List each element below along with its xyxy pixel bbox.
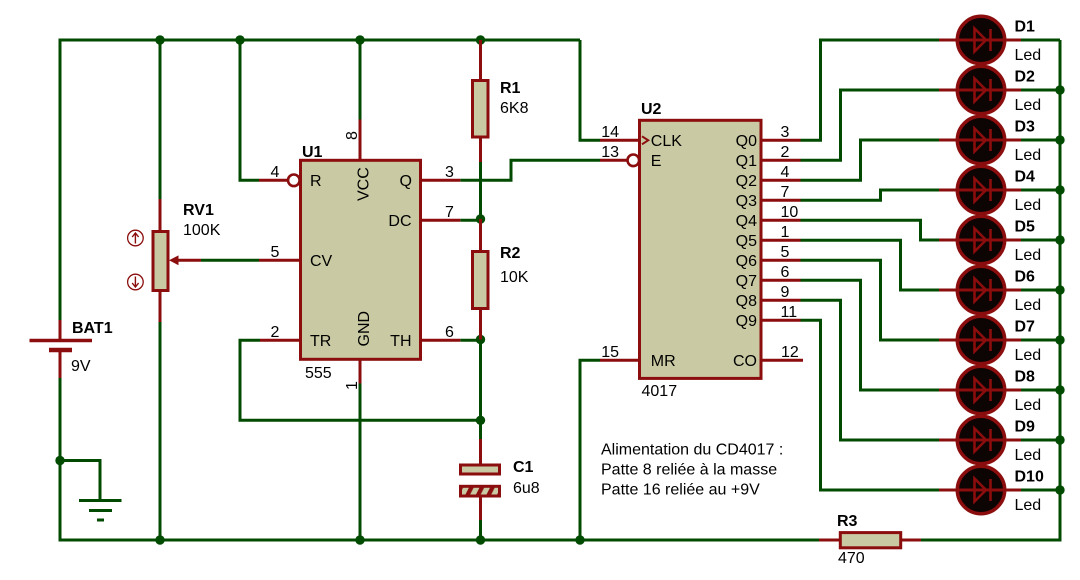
svg-text:3: 3 (445, 164, 454, 181)
wire Q4 to D5 (801, 220, 941, 240)
svg-text:3: 3 (781, 124, 790, 141)
pin number 7 (781, 184, 790, 201)
wire RV1 bottom (159, 322, 162, 540)
junction LED rail / D8 (1055, 385, 1064, 394)
junction bottom rail / C1 (476, 535, 485, 544)
junction R2-TH node (476, 335, 485, 344)
wire C1 bottom to rail (479, 520, 482, 540)
svg-text:R: R (310, 173, 322, 190)
junction top rail / reset (235, 35, 244, 44)
pin name CLK (651, 133, 682, 150)
svg-text:Led: Led (1015, 247, 1042, 264)
junction LED rail / D2 (1055, 85, 1064, 94)
wire +9V top rail (59, 39, 581, 42)
wire Q3 to D4 (801, 190, 941, 200)
svg-text:555: 555 (305, 365, 332, 382)
pin Q2 lead (761, 179, 801, 182)
pin number 15 (601, 344, 619, 361)
svg-text:8: 8 (344, 131, 361, 140)
LED D9 (939, 416, 1021, 463)
pin name E (651, 153, 662, 170)
svg-text:Q4: Q4 (736, 213, 757, 230)
label U2 (641, 101, 662, 118)
pin Q6 lead (761, 259, 801, 262)
svg-text:4: 4 (271, 164, 280, 181)
wire D1 cathode to rail (1021, 39, 1060, 42)
pin 4 R bubble (288, 175, 300, 187)
pin Q4 lead (761, 219, 801, 222)
pin number 6 (781, 264, 790, 281)
value Led D7 (1015, 347, 1042, 364)
IC U2 4017 body (640, 120, 762, 378)
label D4 (1015, 169, 1036, 186)
pin number 3 (445, 164, 454, 181)
wire Q2 to D3 (801, 140, 941, 180)
svg-text:TH: TH (390, 333, 411, 350)
label D1 (1015, 19, 1036, 36)
wire reset branch to pin4 (240, 40, 259, 180)
svg-text:D5: D5 (1015, 219, 1036, 236)
svg-text:U2: U2 (641, 101, 662, 118)
label R1 (500, 80, 521, 97)
resistor R3 (819, 533, 921, 548)
pin name Q5 (736, 233, 757, 250)
svg-text:6: 6 (445, 324, 454, 341)
potentiometer RV1 (153, 199, 201, 322)
note line 3 (601, 481, 760, 498)
svg-text:Led: Led (1015, 397, 1042, 414)
svg-text:Led: Led (1015, 147, 1042, 164)
value Led D4 (1015, 197, 1042, 214)
junction battery/ground (55, 456, 64, 465)
svg-text:Q8: Q8 (736, 293, 757, 310)
value 100K (183, 222, 221, 239)
wire Q6 to D7 (801, 260, 941, 340)
junction R1-R2-DC node (476, 214, 485, 223)
value Led D1 (1015, 47, 1042, 64)
LED D3 (939, 116, 1021, 163)
label D6 (1015, 269, 1036, 286)
svg-text:R2: R2 (500, 245, 521, 262)
junction LED rail / D10 (1055, 485, 1064, 494)
pin Q0 lead (761, 139, 801, 142)
pin name TR (310, 333, 331, 350)
junction top rail / RV1 (155, 35, 164, 44)
svg-text:14: 14 (601, 124, 619, 141)
note line 2 (601, 461, 777, 478)
LED D7 (939, 316, 1021, 363)
svg-text:4: 4 (781, 164, 790, 181)
wire Q out to E (460, 160, 600, 180)
svg-text:Led: Led (1015, 497, 1042, 514)
label C1 (513, 459, 534, 476)
svg-text:Q0: Q0 (736, 133, 757, 150)
LED D6 (939, 266, 1021, 313)
pin number 4 (271, 164, 280, 181)
pin number 1 (781, 224, 790, 241)
pin 5 CV lead (259, 259, 301, 262)
label D3 (1015, 119, 1036, 136)
pin 3 Q lead (421, 179, 461, 182)
pin number 10 (781, 204, 799, 221)
value 470 (838, 550, 865, 567)
LED D10 (939, 466, 1021, 513)
pin 7 DC lead (421, 219, 461, 222)
wire bottom rail left of R3 (60, 539, 819, 542)
pin number 4 (781, 164, 790, 181)
svg-text:U1: U1 (302, 144, 323, 161)
pin 8 VCC lead (359, 120, 362, 161)
value Led D6 (1015, 297, 1042, 314)
pin Q5 lead (761, 239, 801, 242)
wire Q0 to D1 (801, 40, 941, 140)
svg-text:D2: D2 (1015, 69, 1036, 86)
wire D6 cathode to rail (1021, 289, 1060, 292)
svg-text:R1: R1 (500, 80, 521, 97)
pin name Q3 (736, 193, 757, 210)
svg-text:Led: Led (1015, 347, 1042, 364)
LED D4 (939, 166, 1021, 213)
wire ground branch (60, 461, 100, 501)
junction LED rail / D5 (1055, 235, 1064, 244)
svg-text:6u8: 6u8 (513, 480, 540, 497)
label D10 (1015, 469, 1044, 486)
junction top rail / R1 (476, 35, 485, 44)
svg-text:Patte 16 reliée au +9V: Patte 16 reliée au +9V (601, 481, 760, 498)
svg-text:6K8: 6K8 (500, 100, 529, 117)
pin number 7 (445, 204, 454, 221)
wire battery - to bottom rail (59, 378, 62, 542)
svg-text:Patte 8 reliée à la masse: Patte 8 reliée à la masse (601, 461, 777, 478)
pin 14 clock mark (642, 136, 648, 144)
svg-text:7: 7 (781, 184, 790, 201)
svg-text:10K: 10K (500, 269, 529, 286)
svg-text:Led: Led (1015, 47, 1042, 64)
label D8 (1015, 369, 1036, 386)
value Led D3 (1015, 147, 1042, 164)
svg-text:2: 2 (781, 144, 790, 161)
wire TR loop (240, 340, 481, 420)
junction bottom rail / MR (575, 535, 584, 544)
wire Q9 to D10 (801, 320, 941, 490)
svg-text:GND: GND (356, 311, 373, 347)
svg-text:5: 5 (781, 244, 790, 261)
label R2 (500, 245, 521, 262)
pin name Q7 (736, 273, 757, 290)
svg-text:D7: D7 (1015, 319, 1036, 336)
pin number 6 (445, 324, 454, 341)
svg-text:2: 2 (271, 324, 280, 341)
pin name Q (400, 173, 412, 190)
pin 6 TH lead (421, 339, 461, 342)
RV1 increase button (128, 230, 144, 246)
RV1 decrease button (128, 274, 144, 290)
resistor R2 (473, 219, 489, 340)
value Led D9 (1015, 447, 1042, 464)
pin name Q6 (736, 253, 757, 270)
pin 15 MR lead (600, 359, 640, 362)
svg-text:D8: D8 (1015, 369, 1036, 386)
junction LED rail / D7 (1055, 335, 1064, 344)
junction top rail / VCC (355, 35, 364, 44)
wire right LED cathode rail (1059, 40, 1062, 540)
pin number 9 (781, 284, 790, 301)
pin Q3 lead (761, 199, 801, 202)
svg-text:TR: TR (310, 333, 331, 350)
note line 1 (601, 441, 783, 458)
wire D4 cathode to rail (1021, 189, 1060, 192)
label D7 (1015, 319, 1036, 336)
label D2 (1015, 69, 1036, 86)
svg-text:9: 9 (781, 284, 790, 301)
svg-text:DC: DC (388, 213, 411, 230)
svg-text:Led: Led (1015, 97, 1042, 114)
pin number 5 (781, 244, 790, 261)
svg-text:Led: Led (1015, 447, 1042, 464)
wire Q1 to D2 (801, 90, 941, 160)
junction LED rail / D9 (1055, 435, 1064, 444)
svg-text:D4: D4 (1015, 169, 1036, 186)
pin Q9 lead (761, 319, 801, 322)
wire R1 bottom to DC node (479, 162, 482, 220)
svg-text:13: 13 (601, 144, 619, 161)
svg-text:D10: D10 (1015, 469, 1044, 486)
IC U1 555 body (301, 160, 421, 359)
label RV1 (183, 202, 214, 219)
junction bottom rail / RV1 (155, 535, 164, 544)
wire D10 cathode to rail (1021, 489, 1060, 492)
svg-text:Alimentation du CD4017 :: Alimentation du CD4017 : (601, 441, 783, 458)
value Led D2 (1015, 97, 1042, 114)
junction LED rail / D4 (1055, 185, 1064, 194)
value Led D10 (1015, 497, 1042, 514)
svg-text:10: 10 (781, 204, 799, 221)
svg-text:6: 6 (781, 264, 790, 281)
ground (79, 501, 122, 521)
label U1 (302, 144, 323, 161)
wire Q7 to D8 (801, 280, 941, 390)
resistor R1 (473, 40, 489, 162)
pin number 2 (781, 144, 790, 161)
svg-text:Q7: Q7 (736, 273, 757, 290)
junction bottom rail / GND (355, 535, 364, 544)
battery BAT1 (30, 320, 93, 378)
svg-text:Led: Led (1015, 197, 1042, 214)
capacitor C1 (461, 439, 500, 520)
pin name VCC (356, 167, 373, 201)
svg-text:VCC: VCC (356, 167, 373, 201)
label R3 (837, 513, 858, 530)
wire RV1 top (159, 40, 162, 199)
pin number 5 (271, 244, 280, 261)
LED D5 (939, 216, 1021, 263)
svg-text:CO: CO (733, 353, 757, 370)
pin name Q9 (736, 313, 757, 330)
svg-text:Q: Q (400, 173, 412, 190)
pin Q8 lead (761, 299, 801, 302)
pin name CO (733, 353, 757, 370)
LED D1 (939, 16, 1021, 63)
wire top rail to CLK (580, 40, 600, 140)
pin name Q0 (736, 133, 757, 150)
pin number 2 (271, 324, 280, 341)
svg-text:Q9: Q9 (736, 313, 757, 330)
pin name Q2 (736, 173, 757, 190)
pin 14 CLK lead (600, 139, 640, 142)
svg-text:D3: D3 (1015, 119, 1036, 136)
svg-text:CLK: CLK (651, 133, 682, 150)
svg-text:C1: C1 (513, 459, 534, 476)
svg-text:9V: 9V (71, 358, 91, 375)
svg-text:Q5: Q5 (736, 233, 757, 250)
wire RV1 wiper to CV (201, 259, 259, 262)
pin 1 GND lead (359, 359, 362, 383)
pin 13 E bubble (628, 155, 640, 167)
svg-text:5: 5 (271, 244, 280, 261)
wire bottom rail right of R3 (921, 539, 1062, 542)
wire D3 cathode to rail (1021, 139, 1060, 142)
svg-text:1: 1 (344, 381, 361, 390)
pin number 8 (344, 131, 361, 140)
pin name DC (388, 213, 411, 230)
svg-text:Q6: Q6 (736, 253, 757, 270)
value Led D8 (1015, 397, 1042, 414)
svg-text:Led: Led (1015, 297, 1042, 314)
value 4017 (642, 383, 678, 400)
value 6u8 (513, 480, 540, 497)
svg-text:7: 7 (445, 204, 454, 221)
pin name GND (356, 311, 373, 347)
wire D8 cathode to rail (1021, 389, 1060, 392)
svg-text:12: 12 (781, 344, 799, 361)
pin name Q4 (736, 213, 757, 230)
wire node to C1 top (479, 420, 482, 439)
wire 555 GND to rail (359, 384, 362, 541)
svg-text:Q1: Q1 (736, 153, 757, 170)
wire Q5 to D6 (801, 240, 941, 290)
svg-text:470: 470 (838, 550, 865, 567)
value 10K (500, 269, 529, 286)
wire left rail to battery + (59, 39, 62, 321)
svg-text:11: 11 (781, 304, 798, 321)
junction LED rail / D6 (1055, 285, 1064, 294)
pin name Q8 (736, 293, 757, 310)
svg-text:BAT1: BAT1 (72, 320, 113, 337)
svg-text:15: 15 (601, 344, 619, 361)
wire TH stub (460, 339, 480, 342)
wire D2 cathode to rail (1021, 89, 1060, 92)
pin Q1 lead (761, 159, 801, 162)
svg-text:1: 1 (781, 224, 790, 241)
LED D8 (939, 366, 1021, 413)
value 555 (305, 365, 332, 382)
svg-text:R3: R3 (837, 513, 858, 530)
pin number 12 (781, 344, 799, 361)
junction LED rail / D3 (1055, 135, 1064, 144)
pin 13 E lead (600, 159, 627, 162)
pin name Q1 (736, 153, 757, 170)
svg-text:100K: 100K (183, 222, 221, 239)
wire Q8 to D9 (801, 300, 941, 440)
svg-text:Q2: Q2 (736, 173, 757, 190)
pin Q7 lead (761, 279, 801, 282)
pin number 14 (601, 124, 619, 141)
wire VCC branch (359, 40, 362, 120)
svg-text:D1: D1 (1015, 19, 1036, 36)
value Led D5 (1015, 247, 1042, 264)
label D9 (1015, 419, 1036, 436)
label BAT1 (72, 320, 113, 337)
svg-text:4017: 4017 (642, 383, 678, 400)
wire TH node down (479, 340, 482, 420)
junction TR-C1 node (476, 416, 485, 425)
svg-text:E: E (651, 153, 662, 170)
pin name TH (390, 333, 411, 350)
svg-text:D6: D6 (1015, 269, 1036, 286)
pin name MR (651, 353, 676, 370)
svg-text:D9: D9 (1015, 419, 1036, 436)
svg-text:Q3: Q3 (736, 193, 757, 210)
pin name R (310, 173, 322, 190)
pin number 13 (601, 144, 619, 161)
wire MR to bottom rail (580, 360, 600, 540)
svg-text:CV: CV (310, 253, 333, 270)
wire DC stub (460, 219, 480, 222)
wire D9 cathode to rail (1021, 439, 1060, 442)
pin number 3 (781, 124, 790, 141)
label D5 (1015, 219, 1036, 236)
value 6K8 (500, 100, 529, 117)
svg-text:MR: MR (651, 353, 676, 370)
pin 4 R lead (259, 179, 288, 182)
pin 2 TR lead (260, 339, 301, 342)
pin 12 CO lead (761, 359, 803, 362)
wire D7 cathode to rail (1021, 339, 1060, 342)
LED D2 (939, 66, 1021, 113)
pin number 11 (781, 304, 798, 321)
pin name CV (310, 253, 333, 270)
value 9V (71, 358, 91, 375)
svg-text:RV1: RV1 (183, 202, 214, 219)
wire D5 cathode to rail (1021, 239, 1060, 242)
pin number 1 (344, 381, 361, 390)
